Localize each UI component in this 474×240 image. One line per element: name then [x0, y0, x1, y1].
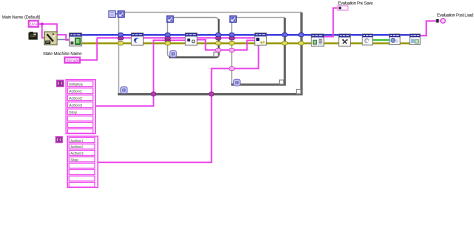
- svg-text:Stop: Stop: [69, 110, 77, 115]
- svg-text:State Machine Name: State Machine Name: [43, 51, 82, 56]
- svg-text:Initialize: Initialize: [69, 82, 83, 87]
- svg-text:UAA: UAA: [30, 22, 39, 27]
- svg-text:Action2: Action2: [69, 96, 82, 101]
- svg-text:Evaluation Post Load: Evaluation Post Load: [437, 12, 474, 17]
- svg-text:Action3: Action3: [70, 151, 83, 156]
- svg-text:Stop: Stop: [70, 157, 78, 162]
- svg-text:Main Name (Default): Main Name (Default): [2, 15, 41, 20]
- svg-text:Action3: Action3: [69, 103, 82, 108]
- svg-text:Action1: Action1: [70, 138, 83, 143]
- svg-text:Evaluation Pre Save: Evaluation Pre Save: [338, 1, 374, 6]
- svg-text:Action1: Action1: [69, 89, 82, 94]
- svg-text:Simple: Simple: [66, 58, 79, 63]
- svg-text:Action2: Action2: [70, 144, 83, 149]
